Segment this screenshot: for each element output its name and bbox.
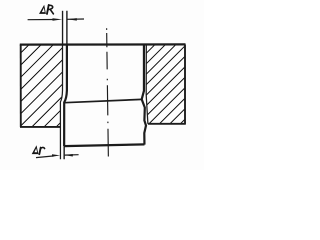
label ΔR: glyph R: [47, 5, 53, 14]
top face line: [20, 43, 186, 45]
left die block (hatched section): [21, 45, 63, 127]
dimension ΔR arrowhead left: [53, 18, 63, 21]
die hole upper-left extension line: [62, 11, 64, 45]
dimension Δr leader line left: [36, 156, 54, 158]
workpiece bottom face: [64, 144, 144, 146]
dimension Δr arrowhead right: [65, 154, 73, 157]
left die block left edge: [20, 45, 22, 128]
dimension ΔR leader line left: [28, 19, 54, 21]
left die block bottom edge: [20, 126, 60, 128]
right die block right edge: [184, 45, 186, 124]
workpiece left edge thick section: [64, 44, 67, 146]
right die hole edge: [146, 45, 148, 124]
workpiece right edge: [142, 44, 146, 144]
dimension ΔR arrowhead right: [67, 18, 77, 21]
left die hole edge and lower extension line: [60, 45, 62, 160]
right die block (hatched section): [146, 45, 185, 124]
right die block bottom edge: [148, 123, 186, 125]
workpiece left edge: [64, 11, 67, 159]
label ΔR: glyph Δ: [39, 5, 46, 14]
workpiece shoulder line: [64, 99, 142, 102]
label Δr: glyph Δ: [32, 145, 39, 154]
dimension Δr tail right: [65, 154, 79, 156]
centerline (dash-dot axis): [107, 28, 109, 156]
dimension Δr arrowhead left: [52, 154, 60, 157]
dimension ΔR tail right: [67, 18, 84, 20]
label Δr: glyph r: [39, 147, 44, 154]
